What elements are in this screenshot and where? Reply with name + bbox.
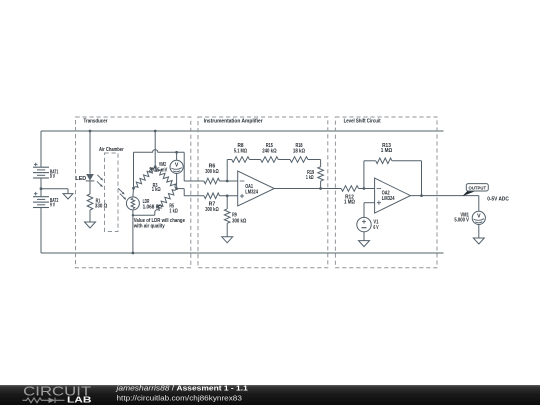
svg-text:jamesharris88 / Assesment 1 -: jamesharris88 / Assesment 1 - 1.1: [115, 384, 247, 393]
svg-text:1.068 kΩ: 1.068 kΩ: [143, 204, 162, 210]
svg-text:LAB: LAB: [67, 396, 92, 405]
svg-text:Instrumentation Amplifier: Instrumentation Amplifier: [204, 119, 263, 125]
svg-text:LM324: LM324: [382, 196, 395, 202]
svg-text:6 V: 6 V: [373, 225, 379, 231]
svg-text:LM324: LM324: [245, 190, 258, 196]
svg-text:http://circuitlab.com/chj86kyn: http://circuitlab.com/chj86kynrex83: [117, 394, 242, 403]
svg-text:1 kΩ: 1 kΩ: [306, 175, 314, 181]
svg-text:293.5 mV: 293.5 mV: [149, 168, 168, 174]
svg-text:240 kΩ: 240 kΩ: [262, 148, 276, 154]
svg-text:5.000 V: 5.000 V: [454, 218, 469, 224]
svg-text:300 kΩ: 300 kΩ: [205, 207, 218, 213]
svg-text:OUTPUT: OUTPUT: [469, 185, 487, 190]
svg-text:1 MΩ: 1 MΩ: [381, 148, 393, 154]
svg-text:0-5V ADC: 0-5V ADC: [487, 196, 509, 202]
svg-text:300 kΩ: 300 kΩ: [205, 169, 218, 175]
svg-text:5.1 MΩ: 5.1 MΩ: [234, 148, 247, 154]
svg-text:Level Shift Circuit: Level Shift Circuit: [344, 119, 381, 125]
svg-text:9 V: 9 V: [50, 203, 56, 209]
svg-text:V: V: [477, 214, 481, 220]
svg-text:300 kΩ: 300 kΩ: [232, 218, 246, 224]
svg-text:V: V: [175, 163, 179, 169]
svg-text:9 V: 9 V: [50, 174, 56, 180]
svg-text:Transducer: Transducer: [84, 119, 108, 125]
svg-text:1 kΩ: 1 kΩ: [152, 187, 161, 193]
svg-text:1 kΩ: 1 kΩ: [169, 209, 177, 215]
svg-text:Air Chamber: Air Chamber: [99, 147, 124, 153]
svg-text:LED: LED: [75, 176, 86, 182]
svg-text:330 Ω: 330 Ω: [95, 204, 107, 210]
svg-text:with air quality: with air quality: [133, 223, 165, 229]
svg-text:18 kΩ: 18 kΩ: [293, 148, 305, 154]
svg-text:1 MΩ: 1 MΩ: [344, 199, 355, 205]
